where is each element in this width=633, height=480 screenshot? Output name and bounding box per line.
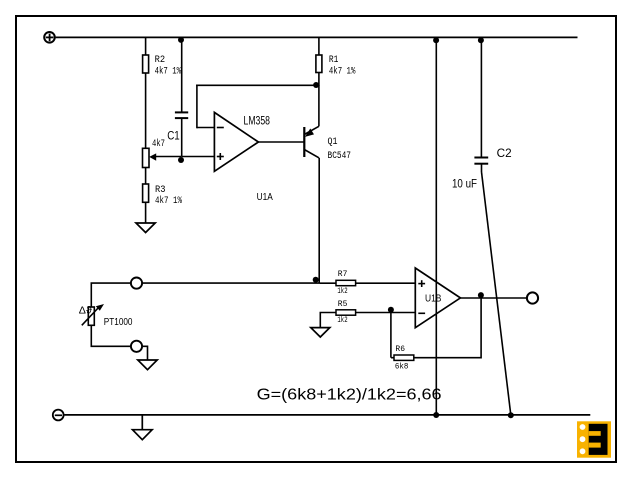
capacitor C1 bbox=[167, 37, 188, 156]
resistor R1 bbox=[316, 54, 356, 78]
wire Q1 emitter vertical bbox=[318, 85, 320, 126]
wire R1 bottom lead bbox=[318, 73, 320, 87]
svg-text:R2: R2 bbox=[155, 54, 166, 66]
wire U1A inverting stub bbox=[197, 127, 215, 129]
wire PT1000 bottom bbox=[91, 325, 130, 347]
power terminal + bbox=[44, 32, 55, 43]
capacitor C2 bbox=[452, 37, 512, 190]
wire feedback vertical bbox=[196, 85, 198, 129]
op-amp U1A bbox=[214, 112, 272, 203]
svg-text:4k7 1%: 4k7 1% bbox=[155, 195, 182, 207]
wire sensor net to R7 bbox=[319, 282, 336, 284]
svg-text:G=(6k8+1k2)/1k2=6,66: G=(6k8+1k2)/1k2=6,66 bbox=[257, 386, 442, 403]
node C2 bottom junction bbox=[508, 412, 514, 418]
svg-text:1k2: 1k2 bbox=[337, 317, 347, 325]
transistor Q1 bbox=[304, 126, 351, 162]
Elektor logo bbox=[577, 421, 611, 457]
svg-text:R7: R7 bbox=[338, 271, 348, 279]
wire R2 to trimmer bbox=[145, 73, 147, 149]
wire R5 to U1B - bbox=[356, 312, 416, 314]
svg-text:C2: C2 bbox=[497, 148, 512, 160]
svg-text:6k8: 6k8 bbox=[395, 363, 409, 371]
wire R7 to U1B + bbox=[356, 282, 416, 284]
ground R5 bbox=[311, 313, 336, 338]
svg-text:10 uF: 10 uF bbox=[452, 179, 477, 191]
node sensor net junction bbox=[313, 277, 319, 283]
node C1 top junction bbox=[178, 37, 184, 43]
terminal sensor bottom bbox=[131, 341, 142, 352]
op-amp U1B bbox=[415, 268, 460, 328]
ground under R3 bbox=[136, 223, 155, 233]
wire down to R6 bbox=[390, 313, 392, 358]
wire R3 to ground bbox=[145, 202, 147, 223]
wire Q1 collector vertical bbox=[318, 158, 320, 283]
node top rail junction left bbox=[433, 37, 439, 43]
svg-text:Δϑ: Δϑ bbox=[79, 306, 93, 317]
svg-text:1k2: 1k2 bbox=[337, 288, 347, 296]
svg-text:Q1: Q1 bbox=[328, 136, 338, 148]
wire mid vertical bbox=[435, 38, 437, 415]
wire sensor bottom to ground bbox=[143, 346, 148, 360]
node top rail junction right bbox=[478, 37, 484, 43]
wire top supply rail bbox=[56, 36, 578, 38]
wire trimmer to R3 bbox=[145, 167, 147, 185]
trimmer 4k7 bbox=[143, 138, 182, 168]
svg-text:LM358: LM358 bbox=[244, 115, 271, 127]
node inverting junction bbox=[388, 307, 394, 313]
wire U1A output to Q1 base bbox=[258, 141, 304, 143]
terminal output bbox=[527, 292, 538, 303]
wire R2 top lead bbox=[145, 38, 147, 57]
wire to U1A + input bbox=[182, 156, 215, 158]
svg-text:4k7: 4k7 bbox=[152, 138, 165, 150]
node bottom rail junction bbox=[433, 412, 439, 418]
resistor R7 bbox=[336, 271, 356, 296]
terminal sensor top bbox=[131, 278, 142, 289]
svg-text:4k7 1%: 4k7 1% bbox=[155, 66, 182, 78]
svg-text:4k7 1%: 4k7 1% bbox=[329, 66, 356, 78]
node output feedback junction bbox=[478, 292, 484, 298]
resistor R3 bbox=[143, 184, 183, 207]
resistor R5 bbox=[336, 301, 356, 325]
wire sensor net to PT1000 bbox=[143, 282, 319, 284]
svg-text:U1A: U1A bbox=[257, 191, 273, 203]
sensor PT1000 bbox=[79, 304, 133, 328]
wire U1B output bbox=[460, 297, 526, 299]
power terminal - bbox=[53, 410, 64, 421]
wire R1 top lead bbox=[318, 38, 320, 57]
resistor R6 bbox=[391, 346, 414, 371]
wire R6 to feedback vertical bbox=[414, 298, 481, 358]
svg-text:R1: R1 bbox=[329, 54, 339, 66]
wire to PT1000 top bbox=[91, 283, 130, 307]
svg-text:U1B: U1B bbox=[425, 293, 441, 305]
svg-text:R5: R5 bbox=[338, 301, 348, 309]
wire C2 slanted lead bbox=[481, 164, 483, 172]
svg-text:BC547: BC547 bbox=[328, 150, 352, 162]
node noninverting input junction bbox=[178, 157, 184, 163]
svg-text:R6: R6 bbox=[395, 346, 405, 354]
node feedback junction bbox=[313, 82, 319, 88]
ground sensor bbox=[138, 360, 157, 370]
resistor R2 bbox=[143, 54, 182, 78]
wire bottom supply rail bbox=[64, 414, 590, 416]
svg-text:PT1000: PT1000 bbox=[104, 316, 133, 328]
ground on bottom rail bbox=[133, 415, 153, 440]
wire feedback horizontal bbox=[196, 84, 319, 86]
svg-text:C1: C1 bbox=[167, 130, 180, 142]
